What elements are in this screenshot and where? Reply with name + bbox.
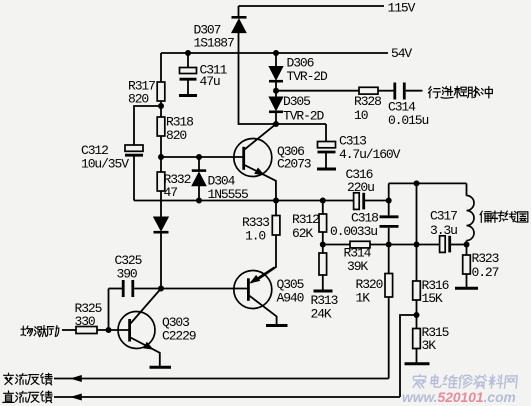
svg-text:1.0: 1.0 bbox=[245, 229, 265, 244]
resistor R323 bbox=[463, 245, 471, 289]
wire C313 drop bbox=[325, 124, 327, 142]
wire D306 to D305 bbox=[275, 81, 277, 97]
junction Q303 collector / C325 / Q305 base line bbox=[158, 286, 164, 292]
wire R325 to Q303 base bbox=[97, 329, 130, 331]
label field drive (Chinese) bbox=[21, 326, 59, 337]
wire C318 bottom to R320 bbox=[388, 228, 390, 274]
svg-text:0.0033u: 0.0033u bbox=[330, 224, 377, 239]
capacitor C317 bbox=[440, 236, 450, 253]
svg-text:R328: R328 bbox=[354, 94, 381, 109]
wire C314 to label bbox=[406, 90, 423, 92]
svg-text:3K: 3K bbox=[422, 338, 437, 353]
svg-text:C2229: C2229 bbox=[162, 329, 196, 344]
wire D305 to collector node bbox=[275, 112, 277, 124]
svg-text:820: 820 bbox=[128, 92, 148, 107]
wire D304 anode lead bbox=[198, 186, 200, 201]
capacitor C312 bbox=[125, 145, 143, 155]
junction Q306 collector node bbox=[273, 121, 279, 127]
svg-text:10: 10 bbox=[354, 108, 368, 123]
node lower rail y244.5 bbox=[323, 244, 350, 246]
transistor Q306 bbox=[234, 124, 276, 201]
resistor R314 bbox=[350, 241, 370, 248]
diode D304 bbox=[192, 171, 206, 186]
node 54V rail bbox=[161, 52, 388, 54]
svg-text:54V: 54V bbox=[391, 46, 412, 61]
junction 54V rail / D306 bbox=[273, 50, 279, 56]
diode D305 bbox=[269, 97, 283, 112]
capacitor C318 bbox=[380, 217, 399, 227]
wire R314 right bbox=[370, 244, 440, 246]
svg-text:D305: D305 bbox=[283, 94, 310, 109]
node emitter rail y200 bbox=[134, 200, 354, 202]
ground R315 bbox=[405, 362, 430, 365]
wire Q305 base line bbox=[134, 288, 247, 290]
resistor R315 bbox=[413, 329, 421, 364]
svg-text:C2073: C2073 bbox=[277, 157, 311, 172]
svg-text:390: 390 bbox=[117, 267, 137, 282]
transistor Q303 bbox=[118, 289, 161, 368]
wire flyback pulse line left part bbox=[276, 90, 359, 92]
svg-text:24K: 24K bbox=[311, 307, 332, 322]
resistor R332 bbox=[157, 172, 165, 191]
junction R312-R313 / R314 bbox=[320, 242, 326, 248]
arrow DC feedback bbox=[71, 394, 82, 400]
diode D307 bbox=[232, 17, 247, 32]
resistor R325 bbox=[76, 327, 97, 334]
svg-text:TVR-2D: TVR-2D bbox=[287, 69, 329, 84]
ground Q303 emitter bbox=[150, 366, 172, 369]
svg-text:220u: 220u bbox=[347, 180, 374, 195]
svg-text:10u/35V: 10u/35V bbox=[81, 157, 129, 172]
label DC feedback (Chinese) bbox=[3, 391, 52, 403]
label flyback pulse (Chinese) bbox=[428, 86, 492, 98]
svg-text:39K: 39K bbox=[347, 259, 368, 274]
wire R332 down through crossing bbox=[160, 191, 162, 217]
ground R323 bbox=[455, 287, 478, 290]
resistor R333 bbox=[258, 201, 280, 280]
junction R325 / C325 branch bbox=[106, 327, 112, 333]
watermark site name (Chinese) bbox=[412, 375, 517, 389]
resistor R320 bbox=[385, 274, 393, 379]
junction D306-D305 / R328 flyback tap bbox=[273, 88, 279, 94]
svg-text:330: 330 bbox=[75, 314, 95, 329]
svg-text:1K: 1K bbox=[356, 291, 371, 306]
diode D306 bbox=[269, 67, 283, 82]
junction R317-R318 / C312 tap bbox=[158, 103, 164, 109]
wire DC feedback riser bbox=[400, 315, 417, 397]
resistor R317 bbox=[157, 82, 165, 101]
svg-text:4.7u/160V: 4.7u/160V bbox=[339, 147, 401, 162]
wire R317 to R318 bbox=[160, 101, 162, 117]
label AC feedback (Chinese) bbox=[4, 373, 52, 385]
junction emitter rail / C318 bbox=[386, 198, 392, 204]
node deflection top line bbox=[389, 182, 467, 184]
transistor Q305 bbox=[234, 267, 277, 325]
wire 54V to D306 bbox=[275, 53, 277, 67]
junction R318-R332 / Q306 base line bbox=[158, 154, 164, 160]
svg-text:www.520101.com: www.520101.com bbox=[402, 390, 516, 405]
resistor R313 bbox=[319, 253, 327, 291]
svg-text:C317: C317 bbox=[430, 209, 457, 224]
junction C318 bottom / R320 bbox=[386, 242, 392, 248]
wire C318 top lead bbox=[388, 183, 390, 215]
wire field drive lead bbox=[62, 329, 76, 331]
junction top line / R316 branch bbox=[414, 180, 420, 186]
wire C317 to coil node bbox=[451, 244, 467, 246]
wire R318 to R332 bbox=[160, 136, 162, 172]
svg-text:820: 820 bbox=[166, 128, 186, 143]
junction Q306 emitter / R333 bbox=[273, 198, 279, 204]
ground Q305 collector bbox=[266, 324, 288, 327]
ground C311 bbox=[179, 94, 197, 97]
junction R316-R315 / DC feedback tap bbox=[414, 312, 420, 318]
inductor deflection coil bbox=[467, 183, 475, 244]
svg-text:62K: 62K bbox=[292, 226, 313, 241]
wire C311 drop bbox=[187, 53, 189, 68]
wire C325 left corner down bbox=[108, 289, 110, 331]
resistor R312 bbox=[319, 201, 327, 254]
ground R313 bbox=[314, 290, 333, 293]
wire R316 top lead bbox=[416, 183, 418, 281]
wire 115V drop to D307 bbox=[238, 6, 240, 17]
wire C312 bottom corner bbox=[133, 155, 135, 200]
arrow AC feedback bbox=[71, 375, 82, 381]
wire D307 anode down and right to C313 corner bbox=[239, 33, 327, 124]
svg-text:3.3u: 3.3u bbox=[430, 223, 457, 238]
capacitor C325 bbox=[109, 280, 133, 297]
wire diode to Q303 collector node bbox=[160, 232, 162, 288]
svg-text:R323: R323 bbox=[472, 251, 499, 266]
node Q306 base line bbox=[161, 156, 244, 158]
svg-text:1N5555: 1N5555 bbox=[208, 187, 249, 202]
wire D304 top lead bbox=[198, 157, 200, 171]
diode unnamed below R332 bbox=[154, 217, 169, 232]
svg-text:47u: 47u bbox=[200, 74, 220, 89]
svg-text:47: 47 bbox=[164, 185, 178, 200]
wire R328 to C314 bbox=[378, 90, 393, 92]
node AC feedback line bbox=[54, 378, 389, 380]
capacitor C314 bbox=[395, 83, 405, 100]
svg-text:TVR-2D: TVR-2D bbox=[283, 109, 325, 124]
wire C316 right bbox=[365, 200, 389, 202]
svg-text:0.27: 0.27 bbox=[472, 265, 499, 280]
junction D304 anode / emitter rail bbox=[196, 198, 202, 204]
resistor R318 bbox=[157, 117, 165, 136]
capacitor C316 bbox=[354, 193, 364, 210]
junction C317 / coil / R323 bbox=[464, 242, 470, 248]
svg-text:A940: A940 bbox=[277, 291, 304, 306]
resistor R316 bbox=[413, 281, 421, 329]
svg-text:0.015u: 0.015u bbox=[388, 113, 429, 128]
label deflection coil (Chinese) bbox=[480, 211, 528, 222]
junction 54V rail / C311 bbox=[185, 50, 191, 56]
junction emitter rail / R312 bbox=[320, 198, 326, 204]
svg-text:R312: R312 bbox=[292, 212, 319, 227]
junction D304 cathode / base line bbox=[196, 154, 202, 160]
capacitor C311 bbox=[180, 68, 197, 96]
node DC feedback line bbox=[54, 396, 400, 398]
wire junction to C312 top bbox=[134, 106, 161, 145]
resistor R328 bbox=[359, 87, 378, 94]
svg-text:15K: 15K bbox=[422, 291, 443, 306]
svg-text:1S1887: 1S1887 bbox=[194, 36, 235, 51]
junction lower rail / R316 bbox=[414, 242, 420, 248]
ground C313 bbox=[317, 168, 336, 171]
svg-text:115V: 115V bbox=[388, 1, 416, 16]
wire 54V left corner down to R317 bbox=[160, 53, 162, 82]
capacitor C313 bbox=[318, 142, 336, 169]
node 115V rail bbox=[239, 5, 385, 7]
